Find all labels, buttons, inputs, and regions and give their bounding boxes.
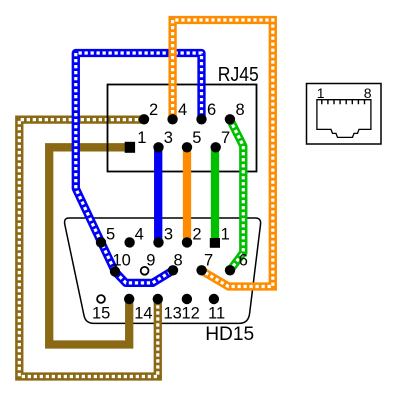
HD15 pin 13 dot — [153, 294, 163, 304]
svg-text:12: 12 — [182, 305, 200, 323]
RJ45 connector box — [108, 85, 257, 172]
RJ45 pin 6 dot — [196, 114, 206, 124]
svg-text:8: 8 — [364, 85, 372, 101]
svg-text:14: 14 — [134, 305, 152, 323]
svg-text:13: 13 — [164, 305, 182, 323]
svg-text:11: 11 — [208, 305, 225, 323]
svg-text:1: 1 — [137, 129, 146, 147]
svg-text:3: 3 — [164, 129, 173, 147]
svg-text:1: 1 — [317, 85, 325, 101]
wire brown solid: RJ45 pin1 to HD15 pin14 — [49, 147, 130, 344]
svg-text:9: 9 — [146, 252, 155, 270]
RJ45 pin 7 dot — [211, 142, 221, 152]
HD15 pin 5 dot — [96, 237, 106, 247]
svg-text:RJ45: RJ45 — [218, 63, 259, 86]
svg-text:15: 15 — [92, 305, 110, 323]
svg-text:5: 5 — [106, 226, 115, 244]
RJ45 pin 3 dot — [153, 142, 163, 152]
HD15 connector trapezoid — [65, 218, 261, 323]
HD15 pin 10 dot — [110, 266, 120, 276]
HD15 pin 2 dot — [182, 237, 192, 247]
svg-text:HD15: HD15 — [205, 323, 254, 345]
svg-text:6: 6 — [239, 252, 248, 270]
RJ45 jack icon opening outline — [317, 100, 371, 138]
svg-text:5: 5 — [192, 129, 201, 147]
wire blue solid: RJ45 pin3 to HD15 pin3 — [154, 147, 162, 242]
RJ45 pin 5 dot — [182, 142, 192, 152]
svg-text:8: 8 — [174, 252, 183, 270]
RJ45 pin 4 dot — [167, 114, 177, 124]
svg-text:10: 10 — [113, 252, 131, 270]
RJ45 pin 1 square pad — [125, 142, 135, 153]
RJ45 pin 8 dot — [225, 114, 235, 124]
wire green solid: RJ45 pin7 to HD15 pin1 — [211, 147, 219, 242]
HD15 pin 12 dot — [182, 294, 192, 304]
HD15 pin 15 open circle — [97, 295, 105, 303]
HD15 pin 14 dot — [124, 294, 134, 304]
wire green/white striped: RJ45 pin8 to HD15 pin6 — [230, 119, 243, 270]
wire orange solid: RJ45 pin5 to HD15 pin2 — [183, 147, 191, 242]
svg-text:3: 3 — [164, 226, 173, 244]
svg-text:2: 2 — [192, 226, 201, 244]
svg-text:2: 2 — [149, 101, 158, 119]
HD15 pin 11 dot — [209, 294, 219, 304]
svg-text:6: 6 — [207, 101, 216, 119]
HD15 pin 8 dot — [168, 265, 178, 275]
svg-text:4: 4 — [135, 226, 144, 244]
HD15 pin 1 square pad — [210, 238, 220, 248]
svg-text:1: 1 — [221, 226, 230, 244]
HD15 pin 7 dot — [196, 265, 206, 275]
RJ45 pin 2 dot — [139, 114, 149, 124]
HD15 pin 4 dot — [124, 237, 134, 247]
wire orange/white striped: RJ45 pin4 to HD15 pin7 — [173, 20, 273, 287]
svg-text:7: 7 — [221, 129, 230, 147]
wire brown/white striped: RJ45 pin2 to HD15 pin13 — [19, 120, 158, 377]
HD15 pin 6 dot — [225, 265, 235, 275]
HD15 pin 9 open circle — [141, 267, 149, 275]
svg-text:7: 7 — [204, 252, 213, 270]
svg-text:4: 4 — [178, 101, 187, 119]
HD15 pin 3 dot — [153, 237, 163, 247]
RJ45 jack icon contact ticks — [322, 100, 365, 105]
svg-text:8: 8 — [236, 101, 245, 119]
wire blue/white striped: RJ45 pin6 to HD15 pins 5,10,8 — [76, 53, 202, 283]
RJ45 jack icon outer box — [307, 84, 382, 145]
